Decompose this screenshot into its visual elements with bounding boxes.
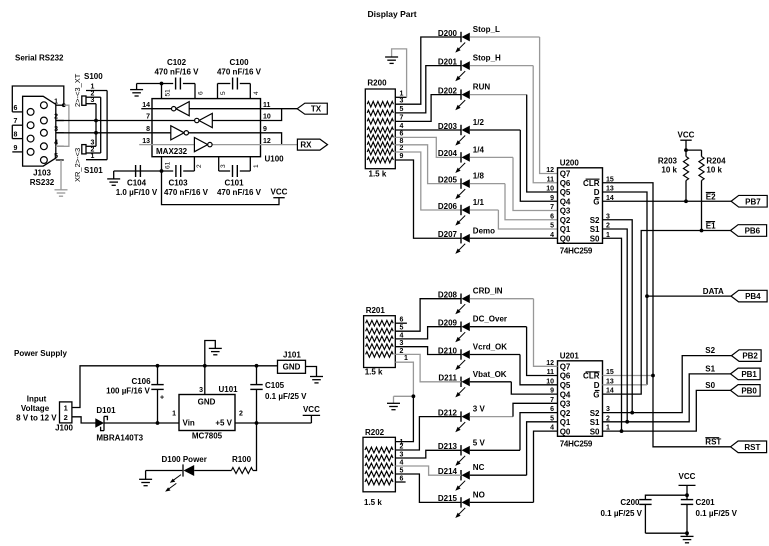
svg-text:MAX232: MAX232 bbox=[156, 147, 188, 156]
svg-text:Q5: Q5 bbox=[560, 381, 571, 390]
J103 pin 1 stub bbox=[56, 104, 64, 106]
svg-text:D200: D200 bbox=[438, 29, 458, 38]
C104 ground stem bbox=[113, 171, 115, 179]
svg-text:C104: C104 bbox=[127, 179, 147, 188]
wire R200.1 to ground bbox=[392, 49, 407, 97]
wire D209 to U201 bbox=[527, 327, 558, 376]
junction VCC pullups bbox=[684, 148, 688, 152]
wire D100 to R100 bbox=[194, 470, 231, 472]
junction rail/C106 bbox=[156, 364, 160, 368]
svg-text:CLR: CLR bbox=[583, 372, 600, 381]
svg-text:U200: U200 bbox=[560, 158, 580, 167]
svg-text:+5 V: +5 V bbox=[215, 419, 232, 428]
svg-text:5: 5 bbox=[400, 106, 404, 113]
svg-text:3: 3 bbox=[400, 97, 404, 104]
svg-text:1.5 k: 1.5 k bbox=[365, 368, 383, 377]
svg-text:Power Supply: Power Supply bbox=[14, 349, 67, 358]
wire R201.1 to ground bbox=[395, 362, 413, 396]
C200 bottom lead bbox=[644, 504, 646, 533]
wire D208 horizontal bbox=[470, 298, 534, 300]
svg-text:1: 1 bbox=[400, 439, 404, 446]
R203 top lead bbox=[685, 150, 687, 156]
svg-text:Vin: Vin bbox=[183, 419, 195, 428]
svg-text:S2: S2 bbox=[705, 346, 715, 355]
svg-text:Serial RS232: Serial RS232 bbox=[15, 54, 64, 63]
resistor network R202 body bbox=[363, 437, 395, 492]
svg-text:MBRA140T3: MBRA140T3 bbox=[96, 434, 143, 443]
wire D202 to U200 bbox=[527, 95, 558, 192]
net label E2 bbox=[706, 192, 716, 201]
J103 pin circle 2 bbox=[41, 117, 48, 124]
wire R202.4 to D214 bbox=[395, 466, 461, 475]
wire D213 horizontal bbox=[470, 449, 520, 451]
junction S0 bbox=[620, 429, 624, 433]
svg-text:D101: D101 bbox=[96, 406, 116, 415]
junction CLR U201 bbox=[651, 374, 655, 378]
svg-text:470 nF/16 V: 470 nF/16 V bbox=[217, 188, 262, 197]
wire R200.4 to D203 bbox=[395, 129, 461, 131]
svg-text:12: 12 bbox=[263, 138, 271, 145]
ground between R201 R202 bbox=[387, 403, 400, 409]
wire D215 horizontal bbox=[470, 501, 534, 503]
svg-text:1: 1 bbox=[91, 153, 95, 160]
LED D209 bbox=[455, 322, 470, 343]
IC U100 MAX232 body bbox=[152, 99, 261, 157]
svg-text:1/4: 1/4 bbox=[473, 145, 485, 154]
wire rail to ground (power) bbox=[205, 341, 216, 366]
resistor R204 bbox=[699, 157, 704, 181]
svg-text:DC_Over: DC_Over bbox=[473, 315, 507, 324]
wire J101 to ground bbox=[306, 367, 317, 377]
svg-text:D207: D207 bbox=[438, 230, 458, 239]
svg-text:2: 2 bbox=[196, 164, 203, 168]
J103 pin 2 stub bbox=[56, 120, 64, 122]
svg-text:S0: S0 bbox=[590, 234, 600, 243]
wire D210 horizontal bbox=[470, 354, 520, 356]
svg-text:7: 7 bbox=[146, 114, 150, 121]
svg-text:Q3: Q3 bbox=[560, 207, 571, 216]
svg-text:10 k: 10 k bbox=[706, 166, 722, 175]
wire D215 to U201 bbox=[534, 431, 558, 502]
svg-text:NO: NO bbox=[473, 490, 485, 499]
J103 pin circle 3 bbox=[41, 129, 48, 136]
J103 pin 4 stub bbox=[56, 145, 64, 147]
wire D205 horizontal bbox=[470, 183, 505, 185]
capacitor C104 bbox=[136, 165, 141, 177]
svg-text:RUN: RUN bbox=[473, 83, 491, 92]
net S0 vertical bbox=[603, 238, 622, 431]
LED D201 bbox=[455, 60, 470, 81]
wire R200.6 to D204 bbox=[395, 137, 461, 157]
svg-text:R204: R204 bbox=[706, 157, 726, 166]
wire R201.2 to D211 bbox=[395, 354, 461, 381]
svg-text:C105: C105 bbox=[265, 381, 285, 390]
wire D207 to U200 pin4 bbox=[470, 237, 558, 239]
svg-text:5: 5 bbox=[550, 223, 554, 230]
U100 pin 15 stub up bbox=[161, 84, 163, 99]
svg-text:G: G bbox=[593, 197, 599, 206]
svg-text:74HC259: 74HC259 bbox=[560, 439, 593, 448]
jumper S101 body bbox=[82, 145, 86, 154]
ground stem R201/R202 bbox=[393, 396, 395, 403]
net S2 to PB2 bbox=[603, 356, 732, 413]
svg-text:C201: C201 bbox=[696, 498, 716, 507]
wire D200 to U200 bbox=[540, 37, 558, 174]
svg-text:S2: S2 bbox=[590, 216, 600, 225]
resistor network R201 body bbox=[364, 316, 396, 368]
ground at R200 bbox=[385, 57, 398, 63]
R201 resistor element 3 bbox=[366, 336, 394, 342]
junction R204/E1 bbox=[700, 229, 704, 233]
flag PB2 bbox=[732, 350, 762, 362]
flag PB1 bbox=[731, 368, 761, 380]
junction DATA bbox=[645, 294, 649, 298]
junction +5V/C105/R100 bbox=[255, 421, 259, 425]
LED D213 bbox=[455, 445, 470, 466]
R202 resistor element 5 bbox=[365, 479, 393, 485]
svg-text:470 nF/16 V: 470 nF/16 V bbox=[154, 68, 199, 77]
svg-text:4: 4 bbox=[54, 140, 58, 147]
J103 pin circle 9 bbox=[27, 149, 34, 156]
J103 pin circle 7 bbox=[27, 122, 34, 129]
svg-text:D202: D202 bbox=[438, 86, 458, 95]
svg-text:RST: RST bbox=[705, 438, 721, 447]
net CLR/RST bbox=[603, 183, 731, 447]
svg-text:9: 9 bbox=[400, 153, 404, 160]
J103 pin 8 stub bbox=[12, 138, 22, 140]
svg-text:74HC259: 74HC259 bbox=[560, 246, 593, 255]
svg-text:2: 2 bbox=[54, 114, 58, 121]
VCC stem (power) bbox=[310, 415, 312, 423]
R202 resistor element 1 bbox=[365, 447, 393, 453]
svg-text:Q4: Q4 bbox=[560, 390, 571, 399]
svg-text:J103: J103 bbox=[33, 169, 51, 178]
C103 right lead bbox=[183, 170, 194, 172]
U100 pin 3 stub down bbox=[218, 157, 220, 171]
svg-text:Q0: Q0 bbox=[560, 234, 571, 243]
junction DB9.3/S101.3 bbox=[94, 131, 98, 135]
wire pin1 to pin4 (grey) bbox=[56, 105, 69, 146]
C100 right lead bbox=[240, 83, 251, 85]
C101 left lead bbox=[219, 170, 230, 172]
J103 pin circle 8 bbox=[27, 135, 34, 142]
junction S2 bbox=[630, 411, 634, 415]
svg-text:D203: D203 bbox=[438, 122, 458, 131]
svg-text:0.1 µF/25 V: 0.1 µF/25 V bbox=[600, 509, 642, 518]
svg-text:C200: C200 bbox=[620, 498, 640, 507]
svg-text:9: 9 bbox=[550, 195, 554, 202]
svg-text:PB7: PB7 bbox=[745, 197, 761, 206]
U100 pin 1 stub up bbox=[249, 157, 251, 171]
svg-text:Q0: Q0 bbox=[560, 427, 571, 436]
net label E1 bbox=[706, 221, 716, 230]
svg-text:2: 2 bbox=[239, 411, 243, 418]
wire D211 to U201 bbox=[511, 382, 557, 394]
svg-text:S0: S0 bbox=[705, 381, 715, 390]
J103 pin circle 1 bbox=[41, 102, 48, 109]
svg-text:1: 1 bbox=[54, 98, 58, 105]
wire R201.3 to D210 bbox=[395, 347, 461, 355]
svg-text:J100: J100 bbox=[55, 424, 73, 433]
U201 CLR label bbox=[583, 372, 600, 381]
wire R201.5 to D208 bbox=[395, 299, 461, 332]
VCC symbol pullups bbox=[680, 139, 691, 141]
resistor R100 bbox=[231, 468, 253, 474]
S100 pin 1 wire bbox=[86, 90, 107, 92]
svg-text:RST: RST bbox=[744, 443, 760, 452]
net DB9.3 to MAX232 pin8 bbox=[56, 132, 152, 134]
svg-text:Demo: Demo bbox=[473, 226, 495, 235]
svg-text:Input: Input bbox=[27, 395, 47, 404]
svg-text:61: 61 bbox=[165, 161, 172, 169]
wire U101 out to VCC bbox=[235, 422, 311, 424]
svg-text:Q6: Q6 bbox=[560, 372, 571, 381]
wire D212 horizontal bbox=[470, 416, 513, 418]
LED D204 bbox=[455, 152, 470, 173]
svg-text:1: 1 bbox=[64, 404, 68, 413]
inverter R2 (row4) bbox=[194, 138, 212, 152]
svg-text:C101: C101 bbox=[224, 179, 244, 188]
wire S100.1 to S101.1 bbox=[106, 91, 108, 160]
C105 bottom lead bbox=[256, 389, 258, 423]
svg-text:8 V to 12 V: 8 V to 12 V bbox=[16, 414, 57, 423]
wire pin12 to RX bbox=[261, 144, 298, 146]
wire D201 horizontal bbox=[470, 65, 533, 67]
wire D214 horizontal bbox=[470, 474, 527, 476]
IC U201 74HC259 body bbox=[558, 361, 603, 437]
wire R202.3 to D213 bbox=[395, 450, 461, 458]
svg-text:6: 6 bbox=[14, 105, 18, 112]
svg-text:RX: RX bbox=[300, 141, 312, 150]
R201 resistor element 1 bbox=[366, 320, 394, 326]
R202 resistor element 2 bbox=[365, 455, 393, 461]
svg-text:C100: C100 bbox=[229, 58, 249, 67]
flag PB0 bbox=[731, 385, 761, 397]
ground stem caps bbox=[686, 533, 688, 536]
svg-text:8: 8 bbox=[14, 132, 18, 139]
LED D210 bbox=[455, 349, 470, 370]
svg-text:+: + bbox=[160, 395, 164, 402]
svg-text:5 V: 5 V bbox=[473, 438, 486, 447]
svg-text:PB0: PB0 bbox=[741, 386, 757, 395]
wire ground to C102 bbox=[137, 83, 174, 85]
svg-text:6: 6 bbox=[198, 91, 205, 95]
junction R203/E2 bbox=[684, 199, 688, 203]
svg-text:PB1: PB1 bbox=[741, 370, 757, 379]
svg-text:MC7805: MC7805 bbox=[192, 432, 223, 441]
ground at J103 pin5 bbox=[55, 190, 68, 196]
VCC stem caps bbox=[686, 485, 688, 495]
net S0 to PB0 bbox=[603, 390, 731, 431]
wire J100.1 to top rail bbox=[72, 366, 278, 408]
bottom rail caps bbox=[645, 532, 687, 534]
svg-text:E1: E1 bbox=[706, 221, 716, 230]
ground stem C102 bbox=[136, 84, 138, 90]
LED D208 bbox=[455, 294, 470, 315]
inverter T2 (row2) bbox=[195, 113, 213, 127]
diode D101 MBRA140T3 bbox=[95, 416, 107, 430]
svg-text:S2: S2 bbox=[590, 409, 600, 418]
inverter T1 (row1) bbox=[172, 102, 190, 116]
R201 resistor element 5 bbox=[366, 352, 394, 358]
regulator U101 MC7805 body bbox=[179, 395, 235, 431]
svg-text:CRD_IN: CRD_IN bbox=[473, 287, 503, 296]
svg-text:7: 7 bbox=[14, 118, 18, 125]
wire pin7 to pin8 bbox=[11, 125, 13, 138]
R200 resistor element 1 bbox=[367, 101, 393, 107]
J103 pin circle 5 bbox=[41, 157, 48, 164]
svg-text:J101: J101 bbox=[283, 351, 301, 360]
svg-text:C103: C103 bbox=[168, 179, 188, 188]
capacitor C102 bbox=[176, 78, 181, 90]
svg-text:NC: NC bbox=[473, 463, 485, 472]
svg-text:R201: R201 bbox=[366, 306, 386, 315]
svg-text:Stop_H: Stop_H bbox=[473, 54, 501, 63]
C201 bottom lead bbox=[686, 504, 688, 533]
R200 resistor element 4 bbox=[367, 127, 393, 133]
svg-text:C102: C102 bbox=[167, 58, 187, 67]
svg-text:Q7: Q7 bbox=[560, 363, 571, 372]
R201 pin6 stub bbox=[395, 322, 407, 324]
J103 pin circle 6 bbox=[27, 109, 34, 116]
svg-text:R100: R100 bbox=[232, 455, 252, 464]
svg-text:3: 3 bbox=[199, 387, 203, 394]
svg-text:470 nF/16 V: 470 nF/16 V bbox=[164, 188, 209, 197]
LED D203 bbox=[455, 125, 470, 146]
wire D206 horizontal bbox=[470, 209, 499, 211]
LED D207 bbox=[455, 233, 470, 254]
wire D200 horizontal bbox=[470, 36, 540, 38]
wire D206 to U200 bbox=[498, 210, 557, 229]
U200 G label bbox=[593, 197, 599, 206]
LED D214 bbox=[455, 470, 470, 491]
svg-text:3: 3 bbox=[220, 164, 227, 168]
svg-text:1/8: 1/8 bbox=[473, 172, 485, 181]
flag PB6 bbox=[731, 225, 767, 237]
R200 resistor element 3 bbox=[367, 119, 393, 125]
C106 top lead bbox=[157, 366, 159, 385]
net DB9.2 to MAX232 pin7 bbox=[56, 120, 152, 122]
wire D209 horizontal bbox=[470, 326, 527, 328]
connector J100 body bbox=[60, 402, 72, 423]
svg-text:D206: D206 bbox=[438, 202, 458, 211]
svg-text:11: 11 bbox=[263, 102, 271, 109]
wire ground to junction bbox=[394, 395, 414, 397]
svg-text:0.1 µF/25 V: 0.1 µF/25 V bbox=[696, 509, 738, 518]
svg-text:VCC: VCC bbox=[678, 131, 695, 140]
svg-text:CLR: CLR bbox=[583, 179, 600, 188]
svg-text:PB6: PB6 bbox=[745, 227, 761, 236]
junction rail/U101 pin3 bbox=[203, 364, 207, 368]
svg-text:12: 12 bbox=[546, 167, 554, 174]
net S1 vertical bbox=[603, 229, 628, 422]
svg-text:E2: E2 bbox=[706, 192, 716, 201]
svg-text:S1: S1 bbox=[590, 418, 600, 427]
wire R100 to +5V bbox=[253, 423, 257, 471]
svg-text:S100: S100 bbox=[84, 72, 103, 81]
svg-text:S0: S0 bbox=[590, 427, 600, 436]
svg-text:D: D bbox=[594, 381, 600, 390]
svg-text:U201: U201 bbox=[560, 351, 580, 360]
svg-text:Voltage: Voltage bbox=[21, 404, 50, 413]
net S1 to PB1 bbox=[603, 374, 731, 422]
LED D206 bbox=[455, 205, 470, 226]
capacitor C103 bbox=[176, 165, 181, 177]
wire R200.5 to D201 bbox=[395, 66, 461, 113]
wire D204 horizontal bbox=[470, 156, 513, 158]
J103 pin 3 stub bbox=[56, 132, 64, 134]
svg-text:R203: R203 bbox=[658, 157, 678, 166]
U200 CLR label bbox=[583, 179, 600, 188]
junction S1 bbox=[625, 420, 629, 424]
wire pin11 to TX bbox=[261, 108, 298, 110]
wire R202.5 to D215 bbox=[395, 474, 461, 502]
svg-text:PB4: PB4 bbox=[745, 292, 761, 301]
svg-text:G: G bbox=[593, 390, 599, 399]
svg-text:6: 6 bbox=[550, 213, 554, 220]
svg-text:1.0 µF/10 V: 1.0 µF/10 V bbox=[116, 188, 158, 197]
svg-text:VCC: VCC bbox=[679, 472, 696, 481]
wire R201.4 to D209 bbox=[395, 327, 461, 339]
svg-text:D205: D205 bbox=[438, 175, 458, 184]
svg-text:5: 5 bbox=[54, 153, 58, 160]
U100 pin 6 stub up bbox=[194, 84, 196, 99]
junction ground caps bbox=[685, 531, 689, 535]
junction pin1 bbox=[62, 103, 66, 107]
junction R201.1/R202.1 ground bbox=[412, 394, 416, 398]
R200 resistor element 6 bbox=[367, 142, 393, 148]
svg-text:Vbat_OK: Vbat_OK bbox=[473, 370, 507, 379]
R203 bottom lead bbox=[685, 181, 687, 202]
svg-text:D204: D204 bbox=[438, 149, 458, 158]
svg-text:9: 9 bbox=[263, 126, 267, 133]
svg-text:S1: S1 bbox=[590, 225, 600, 234]
svg-text:Stop_L: Stop_L bbox=[473, 25, 500, 34]
C101 right lead bbox=[240, 170, 251, 172]
wire D214 to U201 bbox=[527, 422, 558, 475]
svg-text:Q3: Q3 bbox=[560, 400, 571, 409]
U100 pin 2 stub up bbox=[193, 157, 195, 171]
ground at J101 bbox=[310, 377, 323, 383]
wire S100.3 to S101.3 bbox=[95, 104, 97, 147]
svg-text:1/1: 1/1 bbox=[473, 198, 485, 207]
junction C102/pin15 bbox=[160, 82, 164, 86]
wire R202.2 to D212 bbox=[395, 417, 461, 450]
wire pin5 to ground bbox=[60, 160, 62, 190]
svg-text:1: 1 bbox=[172, 411, 176, 418]
R200 resistor element 2 bbox=[367, 110, 393, 116]
wire D210 to U201 bbox=[520, 355, 558, 385]
flag TX bbox=[297, 103, 327, 114]
wire VCC to pullups bbox=[686, 140, 702, 150]
net D vertical bbox=[603, 192, 648, 385]
svg-text:XR_2>-<3: XR_2>-<3 bbox=[73, 148, 82, 182]
svg-text:1: 1 bbox=[404, 355, 408, 362]
wire pin1 to pin6 loop bbox=[12, 86, 64, 112]
svg-text:7: 7 bbox=[550, 204, 554, 211]
svg-text:R202: R202 bbox=[365, 428, 385, 437]
capacitor C200 bbox=[639, 500, 651, 505]
wire R200.8 to D205 bbox=[395, 145, 461, 184]
wire pin10 to TX riser bbox=[261, 109, 282, 121]
U100 pin 4 stub up bbox=[249, 84, 251, 99]
svg-text:3: 3 bbox=[91, 97, 95, 104]
R204 bottom lead bbox=[701, 181, 703, 231]
U100 pin 13 stub bbox=[139, 144, 152, 146]
ground at C104 bbox=[107, 179, 120, 185]
LED D205 bbox=[455, 178, 470, 199]
IC U200 74HC259 body bbox=[558, 168, 603, 244]
